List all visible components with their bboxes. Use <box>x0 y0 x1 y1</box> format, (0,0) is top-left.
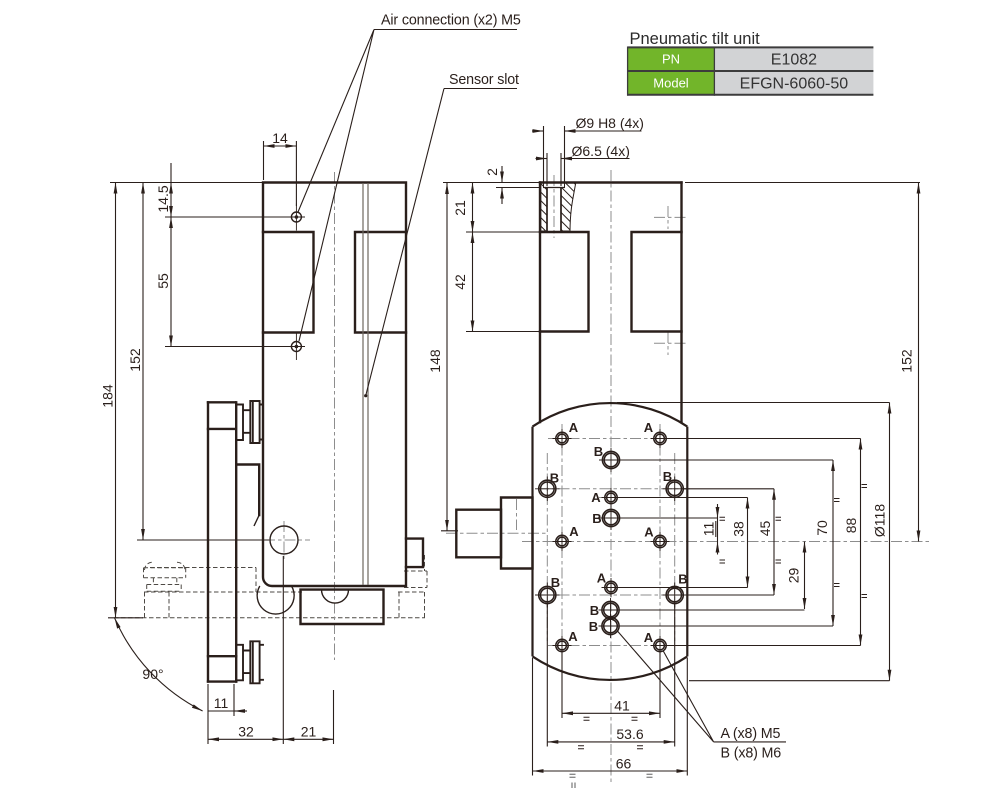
svg-text:32: 32 <box>238 724 254 740</box>
hole A6 <box>602 578 621 597</box>
hole B8 <box>599 614 623 638</box>
dim 88 line <box>860 439 862 646</box>
dim 55 ext line <box>165 346 290 348</box>
dim 14.5 line <box>170 163 172 183</box>
dim 66 line <box>533 770 688 772</box>
dim O6.5 ext lines <box>547 153 561 186</box>
svg-text:38: 38 <box>731 521 747 537</box>
air connection hole top <box>291 212 301 222</box>
air connection leader <box>298 30 517 342</box>
svg-text:Ø118: Ø118 <box>872 504 888 537</box>
svg-text:A: A <box>644 630 654 645</box>
dim O6.5 line <box>536 158 548 160</box>
dowel hole section hatch right band <box>561 183 576 232</box>
svg-text:11: 11 <box>701 522 717 537</box>
pivot circle <box>270 526 298 554</box>
hole B2 <box>663 477 688 502</box>
dim 32 line <box>208 738 283 740</box>
dim 184 line <box>115 183 117 618</box>
bottom ext lines <box>533 604 688 776</box>
svg-text:B: B <box>592 511 601 526</box>
dim 21 ext line <box>466 231 540 233</box>
bolt circle horizontal B rows <box>538 489 690 595</box>
section hole center line <box>553 175 555 238</box>
dim 2 ext line <box>496 187 541 189</box>
svg-text:11: 11 <box>214 695 229 711</box>
svg-text:90°: 90° <box>142 666 163 682</box>
note leader lines <box>617 631 786 742</box>
hole B3 <box>535 583 560 608</box>
ghost bolt head <box>147 585 182 592</box>
hole A8 <box>651 636 670 655</box>
dim O9 line <box>532 130 544 132</box>
dowel hole section hatch left band <box>541 183 547 232</box>
ghost bolt cap arcs <box>145 562 186 570</box>
shaft <box>456 510 501 558</box>
svg-text:B: B <box>589 619 598 634</box>
hole A7 <box>553 636 572 655</box>
svg-text:E1082: E1082 <box>771 52 817 69</box>
svg-text:152: 152 <box>127 348 143 372</box>
dim 21 line <box>472 183 474 233</box>
left view vertical center line <box>334 172 336 660</box>
plate bottom ext line <box>689 680 890 682</box>
sensor slot lines <box>363 183 368 585</box>
hinge boss arc <box>257 586 294 614</box>
shaft center line <box>446 532 546 534</box>
svg-text:152: 152 <box>899 349 915 373</box>
svg-text:A: A <box>644 420 654 435</box>
ghost hole box <box>145 592 170 618</box>
svg-text:70: 70 <box>814 520 830 536</box>
svg-text:A: A <box>568 629 578 644</box>
svg-text:29: 29 <box>786 568 802 584</box>
dim 42 line <box>472 232 474 332</box>
dim 184 bottom ext line <box>108 617 143 619</box>
right tab block <box>355 232 406 333</box>
svg-text:2: 2 <box>484 168 500 176</box>
plate step notch <box>236 465 259 516</box>
shaft flange center mark <box>516 499 518 530</box>
svg-text:A (x8) M5: A (x8) M5 <box>721 726 781 742</box>
left pivot center cross <box>264 521 310 561</box>
svg-text:Pneumatic tilt unit: Pneumatic tilt unit <box>630 30 761 48</box>
hole A2 <box>651 429 670 448</box>
tilt plate side <box>208 402 236 681</box>
equality tick marks <box>578 485 867 749</box>
bolt circle horizontal A rows <box>548 439 674 646</box>
svg-text:B: B <box>663 469 672 484</box>
lower mounting block <box>301 590 384 624</box>
svg-text:Ø9 H8 (4x): Ø9 H8 (4x) <box>576 115 644 131</box>
pivot shaft semicircle <box>322 590 349 604</box>
svg-text:B: B <box>551 575 560 590</box>
dim 70 line <box>832 460 834 626</box>
dim 14 ext lines <box>264 141 297 206</box>
dim 21 line <box>283 738 333 740</box>
dim 148 line <box>446 183 448 531</box>
angle 90 arc <box>115 618 203 711</box>
body side edges <box>540 183 682 423</box>
hole A4 <box>651 532 670 551</box>
dim 11 underline <box>715 521 717 537</box>
svg-text:EFGN-6060-50: EFGN-6060-50 <box>740 76 849 93</box>
dim 32 ext line from pivot <box>282 556 284 744</box>
svg-text:B (x8) M6: B (x8) M6 <box>721 746 782 762</box>
svg-text:A: A <box>569 420 579 435</box>
ghost plate back line <box>144 591 425 593</box>
svg-text:184: 184 <box>100 384 116 408</box>
hole A5 <box>602 488 621 507</box>
svg-text:66: 66 <box>616 755 632 771</box>
right view vertical center line <box>610 170 612 782</box>
right tab block <box>632 232 682 332</box>
top ext line left <box>443 182 540 184</box>
svg-text:Ø6.5 (4x): Ø6.5 (4x) <box>572 143 630 159</box>
hole connector lines <box>618 439 861 646</box>
plate top ext line <box>617 402 890 404</box>
hole B5 <box>599 448 623 472</box>
svg-text:A: A <box>597 571 607 586</box>
global horizontal center line <box>522 541 930 543</box>
left tab block <box>263 232 314 333</box>
dim 55 line <box>170 217 172 347</box>
left tab block <box>540 232 589 332</box>
hole A3 <box>553 532 572 551</box>
hole B6 <box>599 506 623 530</box>
dim 45 line <box>773 489 775 595</box>
dim O118 line <box>889 403 891 681</box>
tilt plate top cap <box>208 402 235 429</box>
ghost bolt washer <box>144 568 186 578</box>
shaft flange <box>501 498 533 569</box>
sensor slot leader <box>366 89 517 396</box>
svg-text:21: 21 <box>452 200 468 216</box>
dim 42 ext line <box>466 331 540 333</box>
svg-text:B: B <box>590 603 599 618</box>
svg-text:45: 45 <box>757 521 773 537</box>
svg-text:B: B <box>550 471 559 486</box>
dim 21 ext line <box>333 690 335 744</box>
air connection hole bottom <box>291 342 301 352</box>
dim 14.5 ext line <box>165 216 290 218</box>
dim 11 ext lines <box>208 684 234 744</box>
svg-text:148: 148 <box>427 349 443 373</box>
svg-text:41: 41 <box>614 698 630 714</box>
ghost unit bottom line <box>114 617 425 619</box>
table fills <box>628 47 715 71</box>
svg-text:A: A <box>591 490 601 505</box>
bolt circle vertical B columns <box>547 453 674 641</box>
svg-text:42: 42 <box>452 274 468 290</box>
right side tab <box>406 539 423 568</box>
svg-text:B: B <box>594 444 603 459</box>
dim 2 line <box>501 166 503 183</box>
dim 148 ext line <box>441 530 458 532</box>
svg-text:53.6: 53.6 <box>616 726 643 742</box>
body top edge <box>540 181 682 183</box>
counterbore bottom line <box>544 187 565 189</box>
dim 41 line <box>562 712 660 714</box>
center column hole crosses <box>599 460 623 626</box>
dim 11 line <box>717 518 719 542</box>
upper clamp bolt <box>236 401 263 443</box>
ghost right tab <box>399 555 427 618</box>
table borders <box>628 47 874 94</box>
lower clamp bolt <box>236 641 263 683</box>
ghost plate corner <box>255 568 257 593</box>
dim 14 line <box>264 145 297 147</box>
top ext line right <box>685 182 920 184</box>
dim O9 ext lines <box>544 126 565 182</box>
dim 152 ext line <box>137 539 269 541</box>
tilt plate bottom cap <box>208 656 236 681</box>
svg-text:14.5: 14.5 <box>155 185 171 212</box>
svg-text:Sensor slot: Sensor slot <box>449 72 519 88</box>
svg-text:B: B <box>678 572 687 587</box>
ghost bolt neck stubs <box>153 578 176 585</box>
svg-text:Model: Model <box>653 76 689 91</box>
hole B1 <box>535 477 560 502</box>
dim 38 line <box>747 498 749 588</box>
svg-text:21: 21 <box>301 724 317 740</box>
svg-text:A: A <box>569 524 579 539</box>
dim 11 line <box>208 710 240 712</box>
tilt plate outline <box>533 403 688 680</box>
dim 29 line <box>804 542 806 610</box>
hole A1 <box>553 429 572 448</box>
svg-text:A: A <box>644 525 654 540</box>
svg-text:14: 14 <box>272 130 288 146</box>
dim 53.6 line <box>547 741 674 743</box>
svg-text:55: 55 <box>155 273 171 289</box>
dim 152 line <box>142 183 144 541</box>
bolt circle vertical A columns <box>562 424 660 658</box>
dowel hole walls <box>547 188 561 232</box>
plate notch break line <box>254 515 259 526</box>
svg-text:PN: PN <box>662 52 680 67</box>
hole B4 <box>663 583 688 608</box>
hidden dowel hole cross bottom <box>654 332 688 355</box>
dim 184 top ext line <box>110 182 263 184</box>
hidden dowel hole cross top <box>654 206 688 229</box>
hole B7 <box>599 598 623 622</box>
svg-text:88: 88 <box>843 518 859 534</box>
ghost plate face line <box>150 567 256 569</box>
svg-text:Air connection (x2) M5: Air connection (x2) M5 <box>381 13 521 29</box>
body outline <box>263 183 406 587</box>
dim 152 line right <box>918 183 920 542</box>
